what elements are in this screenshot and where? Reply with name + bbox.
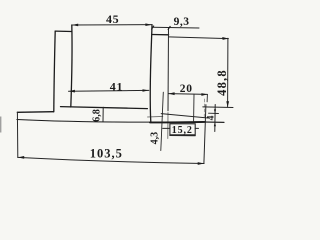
arrow 48,8 bottom xyxy=(226,101,229,107)
dim line 6,8 vertical xyxy=(102,107,104,121)
4 dim tick bottom / plate bottom extension xyxy=(204,121,224,123)
15,2 box xyxy=(170,124,195,135)
arrow 20 left xyxy=(169,92,175,95)
base right edge + 103,5 extension xyxy=(204,105,206,164)
base bottom face xyxy=(17,120,205,123)
dim line 9,3 xyxy=(152,26,199,29)
svg-text:45: 45 xyxy=(106,12,119,26)
left edge scan smudge xyxy=(0,117,1,133)
tick left of groove (4,3 upper tick) xyxy=(148,116,163,119)
top-right extension for 48,8 xyxy=(169,37,229,39)
dim line 41 xyxy=(69,89,149,92)
dim line 48,8 vertical xyxy=(227,38,229,107)
arrow 41 left xyxy=(69,90,75,93)
arrow 41 right xyxy=(143,89,149,92)
base left edge + 103,5 extension xyxy=(16,112,18,157)
stub right ext of 20 xyxy=(206,94,208,101)
tick 9,3 at 168.6 xyxy=(167,26,171,30)
bottom extension for 48,8 xyxy=(203,106,233,109)
right wall top face xyxy=(152,34,168,36)
outer right wall extension (long) xyxy=(167,28,170,111)
15,2 stub left xyxy=(163,127,170,129)
cavity bottom face xyxy=(61,107,148,109)
svg-text:4: 4 xyxy=(207,115,217,120)
svg-text:20: 20 xyxy=(180,83,193,95)
svg-text:4,3: 4,3 xyxy=(150,132,161,145)
svg-text:6,8: 6,8 xyxy=(92,109,103,122)
base top-left face xyxy=(17,111,53,114)
svg-text:41: 41 xyxy=(110,79,124,93)
15,2 stub right xyxy=(195,127,198,129)
svg-text:9,3: 9,3 xyxy=(174,16,190,28)
svg-text:103,5: 103,5 xyxy=(90,147,123,161)
base bottom face right darker xyxy=(150,121,205,124)
arrow 103,5 right xyxy=(198,162,204,165)
dashed extension x204 xyxy=(203,99,205,118)
inner left wall / 45-41 extension xyxy=(71,25,72,107)
arrow 45 left xyxy=(72,24,78,27)
arrow 103,5 left xyxy=(18,156,24,159)
svg-text:15,2: 15,2 xyxy=(172,125,193,136)
extension at x194 down (15,2 right ext) xyxy=(193,94,195,121)
arrow 4 top xyxy=(214,109,216,113)
15,2 box bottom reinforcement xyxy=(170,134,195,136)
arrow 45 right xyxy=(145,23,151,26)
dimensioned cross-section sketch of a channel/cup profile xyxy=(0,0,253,183)
ledge face top-left xyxy=(55,30,72,32)
arrow 48,8 top xyxy=(222,37,228,40)
4,3 extension vertical xyxy=(161,92,164,150)
4 dim vertical xyxy=(214,105,216,132)
arrow 4 bottom xyxy=(214,122,216,126)
dim line 20 xyxy=(169,93,208,96)
right inner wall (wavy) xyxy=(150,25,152,122)
tick 9,3 at 152 xyxy=(151,25,155,29)
dim line 45 xyxy=(72,24,152,26)
4 dim tick top xyxy=(209,112,219,114)
groove / plate right top face xyxy=(161,114,208,118)
left wall xyxy=(54,31,55,112)
outer right wall extension lower faint xyxy=(167,113,169,139)
arrow 20 right xyxy=(201,93,207,96)
svg-text:48,8: 48,8 xyxy=(215,69,229,96)
dim line 103,5 xyxy=(18,157,204,163)
